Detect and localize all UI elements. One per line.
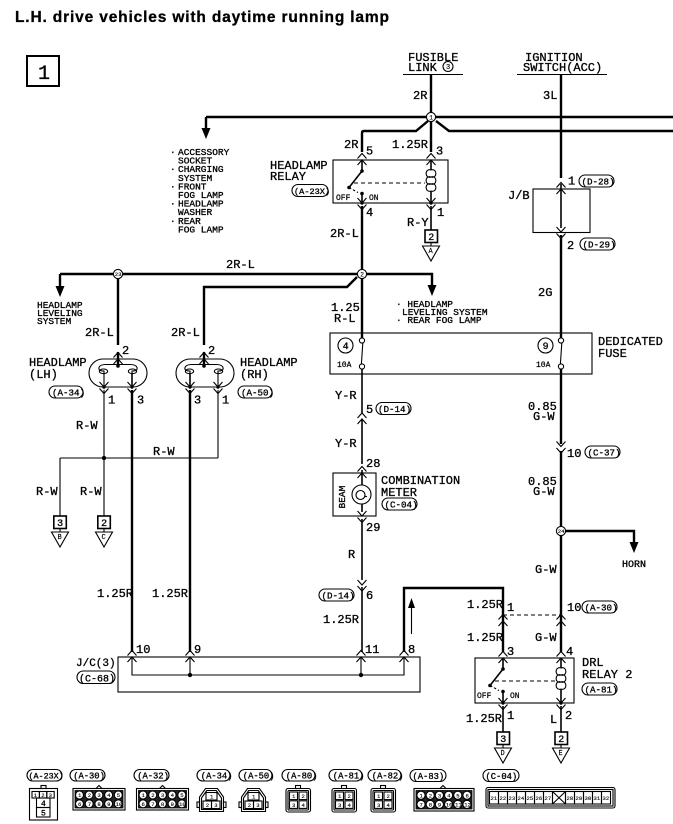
svg-text:(A-50): (A-50) [243,772,275,782]
svg-text:LINK: LINK [408,61,438,75]
combination meter box [333,473,376,516]
svg-text:2: 2 [122,344,129,358]
DRL relay pin 3 chevrons [499,645,515,663]
node 2 [357,269,366,278]
svg-text:1: 1 [507,709,514,723]
connector legend A-82 [368,770,403,813]
svg-text:10: 10 [136,643,150,657]
svg-text:25: 25 [527,795,534,802]
svg-text:9: 9 [543,342,549,353]
J/C pin 9 [186,643,202,662]
ground box 3 (B) [52,516,69,547]
svg-text:J/B: J/B [508,189,530,203]
node 1 [426,112,435,121]
svg-text:3: 3 [338,802,341,809]
connector 5 D-14 chevrons [358,403,412,425]
svg-text:10: 10 [567,447,581,461]
wire node2 branch right to leveling/rear fog (arrow down) [367,274,437,296]
svg-text:2: 2 [206,802,209,809]
connector legend A-50 [239,770,274,812]
svg-text:SWITCH(ACC): SWITCH(ACC) [523,61,602,75]
svg-text:22: 22 [500,795,507,802]
svg-text:R: R [348,548,355,562]
svg-text:·: · [170,199,176,210]
svg-text:G-W: G-W [535,563,557,577]
svg-text:26: 26 [536,795,543,802]
connector 1 D-28 chevrons [557,175,615,195]
svg-text:G-W: G-W [533,410,555,424]
svg-text:BEAM: BEAM [337,485,348,508]
svg-text:3: 3 [292,802,295,809]
relay pin 5 connector chevrons [358,145,374,166]
svg-text:10: 10 [179,801,186,808]
wire branch to horn (arrow down) [566,531,646,571]
svg-text:SYSTEM: SYSTEM [37,316,72,327]
wire 2G J/B to fuse 9 [538,235,561,338]
svg-text:23: 23 [115,271,122,278]
svg-text:28: 28 [567,795,574,802]
headlamp RH pins 3 and 1 [186,382,230,408]
wire node1 branch left to relay pin5 [344,121,428,152]
ground box 2 (C) [96,516,113,547]
J/C pin 8 [400,643,416,662]
wire 2R-L RH headlamp feed from node 2 [171,277,357,365]
page number box 1 [27,56,59,86]
svg-text:(C-68): (C-68) [79,674,115,686]
meter pin 28 chevrons [358,457,381,485]
wire 0.85 G-W C-37 to node 24 [528,451,561,526]
svg-text:(A-50): (A-50) [241,388,274,399]
svg-text:2: 2 [565,709,572,723]
svg-text:6: 6 [142,801,145,808]
relay switch (OFF/ON) [336,160,379,203]
relay pin 4 exit chevrons [358,198,374,220]
svg-text:(A-81): (A-81) [585,685,618,696]
svg-text:11: 11 [455,801,462,808]
svg-text:(A-83): (A-83) [413,772,445,782]
svg-text:3: 3 [97,792,100,799]
wire 2R-L node23 to LH headlamp pin 2 [85,279,129,365]
svg-text:11: 11 [365,643,379,657]
wire R-W RH pin1 down [217,390,219,458]
svg-text:1.25R: 1.25R [467,631,503,645]
wire from J/C pin 8 up and right [404,588,503,652]
svg-text:Y-R: Y-R [335,389,357,403]
svg-text:2R: 2R [413,89,427,103]
svg-text:L: L [550,713,557,727]
svg-text:2R-L: 2R-L [85,326,114,340]
svg-text:2: 2 [360,272,364,279]
svg-text:29: 29 [576,795,583,802]
svg-text:24: 24 [518,795,525,802]
svg-text:3: 3 [214,802,217,809]
J/C pin 10 [128,643,151,662]
svg-text:R-W: R-W [153,445,175,459]
wire branch to accessory list (arrow down) [202,117,211,139]
svg-text:10: 10 [446,801,453,808]
svg-text:(A-30): (A-30) [73,772,105,782]
svg-text:D: D [501,750,505,758]
ground box 2 (E) [553,732,570,763]
DRL relay pin 2 exit chevrons [550,698,572,727]
svg-text:4: 4 [366,206,373,220]
svg-text:R-Y: R-Y [407,216,429,230]
svg-text:1.25R: 1.25R [467,598,503,612]
connector legend A-83 [410,770,474,812]
svg-text:5: 5 [117,792,120,799]
ground triangle A [423,243,440,262]
wire R-W drop to ground box 2 (C) [80,458,104,516]
J/B box [508,184,590,233]
svg-text:3: 3 [507,645,514,659]
svg-text:ON: ON [510,692,520,701]
svg-text:R-W: R-W [76,419,98,433]
headlamp leveling system label (left) [37,300,83,327]
svg-text:9: 9 [194,643,201,657]
svg-text:C: C [102,534,106,542]
svg-text:29: 29 [366,521,380,535]
svg-text:(C-04): (C-04) [385,500,418,511]
svg-text:9: 9 [107,801,110,808]
J/C (3) box [76,657,420,692]
meter pin 29 exit chevrons [358,511,381,535]
svg-text:1.25R: 1.25R [466,712,502,726]
ignition switch label [517,51,607,75]
connector legend A-81 [329,770,364,813]
svg-text:31: 31 [594,795,601,802]
svg-text:1.25R: 1.25R [392,138,428,152]
svg-text:·: · [170,216,176,227]
headlamp LH label [29,356,87,399]
svg-text:1: 1 [507,601,514,615]
svg-text:2G: 2G [538,286,552,300]
J/C internal bus [132,657,404,677]
svg-text:2R-L: 2R-L [171,326,200,340]
wire node1 branch right to y131 bus [436,121,673,131]
fuse 4 (10A) [337,338,365,370]
svg-text:RELAY 2: RELAY 2 [582,668,632,682]
fusible link label [403,51,463,75]
wire 1.25 R-L node2 to fuse 4 [331,279,362,338]
svg-text:2: 2 [302,793,305,800]
ground box 2 (A) [425,230,438,244]
connector 10 C-37 chevrons [557,442,621,462]
svg-text:(A-81): (A-81) [333,772,365,782]
svg-text:OFF: OFF [477,692,492,701]
svg-text:5: 5 [366,145,373,159]
svg-text:3: 3 [57,519,63,530]
svg-text:3: 3 [137,394,144,408]
relay pin 1 exit chevrons [427,198,445,220]
svg-text:10: 10 [116,801,123,808]
wire 3L ignition switch down [543,75,561,179]
svg-text:1: 1 [38,63,50,86]
svg-text:FOG LAMP: FOG LAMP [178,224,224,235]
connector legend A-32 [134,770,189,811]
svg-text:5: 5 [180,792,183,799]
svg-text:(A-23X): (A-23X) [294,187,330,197]
svg-text:HORN: HORN [622,560,646,571]
combination meter label [381,474,460,511]
connector 1 chevrons (A-30 left) [467,598,514,626]
svg-text:2: 2 [348,793,351,800]
svg-text:1.25R: 1.25R [152,587,188,601]
svg-text:2: 2 [387,793,390,800]
svg-text:3: 3 [377,802,380,809]
svg-text:7: 7 [420,801,423,808]
connector 2 D-29 exit chevrons [557,227,616,253]
svg-text:Y-R: Y-R [335,437,357,451]
svg-text:5: 5 [456,792,459,799]
wire 0.85 G-W fuse9 down [528,369,561,444]
svg-text:3: 3 [436,145,443,159]
wire G-W to DRL relay pin 4 [535,615,561,652]
svg-text:J/C(3): J/C(3) [76,658,116,670]
wire R meter to D-14 [348,519,362,580]
svg-text:1.25R: 1.25R [97,587,133,601]
svg-text:3: 3 [446,64,450,72]
svg-text:27: 27 [545,795,552,802]
svg-text:3: 3 [161,792,164,799]
headlamp RH body [176,359,234,387]
svg-text:B: B [58,534,62,542]
svg-text:8: 8 [429,801,432,808]
svg-text:2: 2 [151,792,154,799]
svg-text:28: 28 [366,457,380,471]
wire R-Y relay pin1 to ground box 2 [407,206,431,230]
svg-text:(A-32): (A-32) [137,772,169,782]
DRL relay coil [556,658,566,703]
svg-text:3: 3 [500,735,506,746]
svg-text:·: · [170,181,176,192]
dashed connector link A-30 [503,614,561,616]
svg-text:8: 8 [161,801,164,808]
headlamp relay U: box [333,160,448,203]
svg-text:1: 1 [222,394,229,408]
svg-text:2: 2 [558,735,564,746]
connector 6 D-14 exit chevrons [319,580,373,603]
svg-text:2: 2 [88,792,91,799]
svg-text:·: · [170,164,176,175]
headlamp relay label [270,159,330,197]
svg-text:(A-80): (A-80) [286,772,318,782]
svg-text:1: 1 [437,206,444,220]
svg-text:2R-L: 2R-L [226,258,255,272]
svg-text:24: 24 [558,528,565,535]
svg-text:4: 4 [566,645,573,659]
svg-text:10A: 10A [536,361,551,370]
svg-text:R-L: R-L [334,312,356,326]
svg-text:· REAR FOG LAMP: · REAR FOG LAMP [396,315,482,326]
node 23 [113,269,122,278]
svg-text:(A-34): (A-34) [201,772,233,782]
svg-text:RELAY: RELAY [270,170,306,184]
accessory loads list [170,147,230,235]
wire node1 down to relay pin3 [392,121,431,152]
wire horizontal bus y117 [206,116,673,118]
wire 1.25R D-14 to J/C pin 11 [323,587,362,652]
svg-text:9: 9 [438,801,441,808]
wire RH pin3 down to J/C pin 9 [152,390,190,652]
relay pin 3 connector chevrons [427,145,444,166]
J/C pin 11 [357,643,380,662]
svg-text:1: 1 [429,115,433,122]
svg-text:1: 1 [568,175,575,189]
title [15,9,389,26]
svg-text:2: 2 [567,239,574,253]
svg-text:7: 7 [88,801,91,808]
svg-text:FUSE: FUSE [598,347,627,361]
headlamp LH pins 1 and 3 [100,382,145,408]
DRL relay pin 1 exit chevrons [466,698,514,726]
svg-text:(D-28): (D-28) [582,177,615,188]
svg-text:E: E [559,750,563,758]
svg-text:32: 32 [603,795,610,802]
svg-text:1: 1 [108,394,115,408]
svg-text:8: 8 [408,643,415,657]
wire DRL pin2 to ground box 2 (E) [560,706,562,732]
svg-text:9: 9 [171,801,174,808]
wire Y-R fuse4 to D-14 [335,369,362,413]
ground box 3 (D) [495,732,512,763]
svg-text:3: 3 [438,792,441,799]
svg-text:7: 7 [151,801,154,808]
svg-text:3L: 3L [543,89,557,103]
svg-text:(D-14): (D-14) [378,404,411,415]
svg-text:3: 3 [256,802,259,809]
svg-text:(A-82): (A-82) [372,772,404,782]
svg-text:(D-29): (D-29) [583,240,616,251]
connector legend A-34 [197,770,232,812]
connector legend A-23X [27,770,64,821]
svg-text:(A-23X): (A-23X) [29,772,64,782]
wire 1.25R to DRL relay pin 3 [467,615,503,652]
svg-text:G-W: G-W [535,631,557,645]
connector legend A-80 [282,770,317,813]
svg-text:10A: 10A [337,361,352,370]
connector 10 A-30 chevrons (right) [557,601,618,626]
wire 2R fusible link to node 1 [413,75,431,114]
dedicated fuse box [330,333,663,374]
svg-text:4: 4 [343,342,349,353]
wire branch to headlamp leveling system (arrow down) [56,274,65,297]
beam indicator lamp [352,485,371,512]
headlamp LH body [89,359,147,387]
wire Y-R D-14 to meter pin 28 [335,419,362,464]
svg-text:6: 6 [78,801,81,808]
svg-text:(RH): (RH) [240,368,269,382]
DRL relay internal dashed link [495,680,555,682]
wire R-W LH pin1 down [76,390,104,458]
svg-text:3: 3 [194,394,201,408]
svg-text:21: 21 [491,795,498,802]
wire 2R-L horizontal bus to node 2 [60,258,358,274]
svg-text:12: 12 [464,801,471,808]
leveling / rear fog list [396,299,488,326]
svg-text:30: 30 [585,795,592,802]
connector legend A-30 [70,770,125,811]
svg-text:L.H. drive vehicles with dayti: L.H. drive vehicles with daytime running… [15,9,389,26]
direction arrow up (beside pin 8 wire) [408,598,415,634]
svg-text:23: 23 [509,795,516,802]
relay internal dashed link [354,182,425,184]
svg-text:8: 8 [97,801,100,808]
node 24 [556,526,565,535]
svg-text:6: 6 [366,589,373,603]
DRL relay switch (OFF/ON) [477,658,520,703]
svg-text:2: 2 [248,802,251,809]
relay coil [426,160,436,203]
svg-text:5: 5 [41,809,46,818]
wire R-W drop to ground box 3 (B) [36,458,60,516]
svg-text:5: 5 [366,403,373,417]
svg-text:(A-30): (A-30) [585,603,618,614]
svg-text:2: 2 [428,233,434,244]
headlamp RH label [238,356,298,399]
wire R-W horizontal [60,445,218,460]
svg-text:2: 2 [208,344,215,358]
wire LH pin3 down to J/C pin 10 [97,390,133,652]
svg-text:(A-34): (A-34) [52,388,85,399]
DRL relay 2 box [475,656,632,703]
wire 2R-L relay pin4 to node 2 [330,206,362,270]
svg-text:2: 2 [429,792,432,799]
fuse 9 (10A) [536,338,564,370]
svg-text:2: 2 [101,519,107,530]
svg-text:ON: ON [369,194,379,203]
svg-text:G-W: G-W [533,485,555,499]
svg-text:(D-14): (D-14) [322,591,355,602]
svg-text:(C-04): (C-04) [486,772,518,782]
svg-text:·: · [170,147,176,158]
svg-text:R-W: R-W [80,485,102,499]
wire DRL pin1 to ground box 3 (D) [502,706,504,732]
svg-text:2R: 2R [344,138,358,152]
svg-text:R-W: R-W [36,485,58,499]
svg-text:2R-L: 2R-L [330,227,359,241]
wire G-W node24 down [535,536,561,615]
svg-text:OFF: OFF [336,194,351,203]
svg-text:6: 6 [466,792,469,799]
svg-text:1.25R: 1.25R [323,613,359,627]
connector legend C-04 [483,770,615,809]
svg-text:10: 10 [567,601,581,615]
DRL relay pin 4 chevrons [557,645,574,663]
svg-text:(C-37): (C-37) [588,448,621,459]
svg-text:(LH): (LH) [29,368,58,382]
